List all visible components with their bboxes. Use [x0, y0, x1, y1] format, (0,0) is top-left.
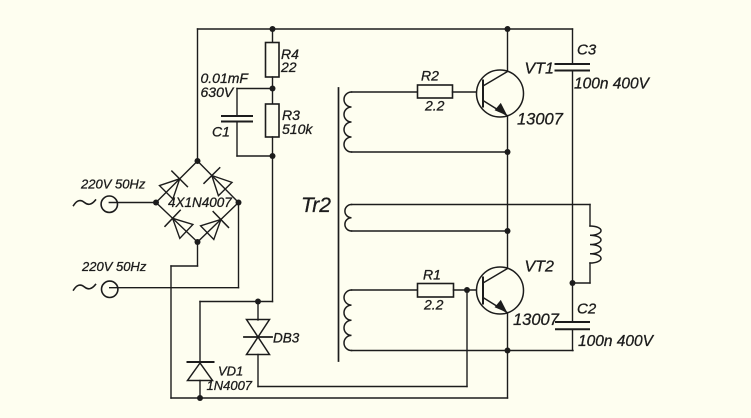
diode D1 upper-left of bridge — [172, 171, 188, 187]
svg-text:R1: R1 — [423, 267, 441, 283]
winding W1 Tr2 top — [344, 92, 352, 152]
ac tilde lower — [74, 285, 96, 291]
bridge rectifier diamond — [156, 161, 198, 203]
wire top rail — [198, 28, 573, 30]
diode D4 lower-right of bridge — [213, 212, 228, 228]
wire C3 bottom lead — [572, 71, 574, 323]
node bridge right vertex — [236, 200, 242, 206]
node C3/C2/choke junction — [570, 280, 576, 286]
svg-text:510k: 510k — [282, 121, 313, 137]
svg-text:Tr2: Tr2 — [301, 194, 331, 217]
wire W2 top lead to choke — [352, 204, 591, 206]
node VT2 emitter / bus junction — [505, 348, 511, 354]
diode D3 lower-left of bridge — [165, 210, 180, 226]
wire bottom bus — [171, 397, 508, 399]
svg-text:VT1: VT1 — [525, 61, 554, 78]
node VT2 base junction — [464, 287, 470, 293]
svg-text:13007: 13007 — [513, 311, 560, 329]
resistor R1 — [418, 284, 454, 298]
svg-text:VT2: VT2 — [525, 259, 554, 276]
node bridge top vertex — [195, 158, 201, 164]
node VD1/bottom-bus junction — [197, 395, 203, 401]
winding W2 Tr2 middle — [345, 205, 352, 232]
wire AC neutral run — [110, 287, 239, 289]
node half-bridge midpoint junction — [505, 228, 511, 234]
diode VD1 — [188, 361, 214, 363]
svg-text:100n 400V: 100n 400V — [574, 76, 651, 93]
wire W1 top lead to R2 — [352, 91, 418, 93]
svg-text:2.2: 2.2 — [424, 98, 445, 114]
wire C3 top lead — [572, 29, 574, 64]
wire R2 to VT1 base — [453, 91, 484, 93]
resistor R4 — [266, 43, 280, 78]
svg-text:13007: 13007 — [517, 111, 564, 129]
wire C1 top lead — [237, 88, 273, 90]
svg-text:VD1: VD1 — [218, 364, 243, 379]
terminal AC live circle — [101, 196, 117, 212]
capacitor C1 — [222, 115, 252, 117]
svg-text:R2: R2 — [421, 68, 439, 84]
wire DB3 upper lead — [257, 302, 259, 321]
wire W1 bottom lead to VT1 emitter — [352, 151, 508, 153]
diac DB3 — [247, 320, 270, 338]
svg-text:220V 50Hz: 220V 50Hz — [80, 177, 146, 192]
wire VT1 collector — [507, 29, 509, 71]
wire W2 bottom lead to midpoint — [352, 230, 508, 232]
node rail/VT1 collector junction — [505, 26, 511, 32]
wire choke top lead — [589, 205, 591, 227]
svg-text:2.2: 2.2 — [423, 297, 444, 313]
winding W3 Tr2 bottom — [344, 290, 352, 351]
wire DB3 lower lead — [257, 355, 259, 387]
wire R4 to R3 — [272, 77, 274, 104]
wire R3 down to DB3 node — [272, 137, 274, 302]
transistor VT2 — [477, 267, 524, 314]
svg-text:4X1N4007: 4X1N4007 — [168, 195, 232, 210]
diode D2 upper-right of bridge — [204, 168, 220, 184]
svg-text:630V: 630V — [201, 84, 235, 100]
wire W3 top lead to R1 — [352, 289, 418, 291]
wire AC live to bridge — [109, 202, 156, 204]
ac tilde upper — [74, 200, 96, 206]
wire DB3 top node — [200, 301, 273, 303]
svg-text:C3: C3 — [577, 42, 597, 59]
node R3/C1 bottom junction — [270, 153, 276, 159]
resistor R2 — [418, 85, 453, 98]
terminal AC neutral circle — [102, 281, 118, 297]
wire rail to R4 — [272, 29, 274, 43]
node R4/C1 junction — [270, 86, 276, 92]
wire choke bottom lead — [589, 263, 591, 283]
node bridge bottom vertex — [195, 239, 201, 245]
wire DB3 to VT2 base riser — [258, 386, 467, 388]
transformer Tr2 core — [338, 88, 340, 361]
transistor VT1 — [477, 70, 524, 117]
wire bridge minus drop — [197, 242, 199, 266]
capacitor C3 — [556, 63, 590, 65]
wire R1 to VT2 base — [454, 289, 484, 291]
svg-text:1N4007: 1N4007 — [207, 378, 253, 393]
wire W3 bottom lead bus — [352, 350, 574, 352]
wire left drop to bridge + — [197, 29, 199, 161]
resistor R3 — [266, 104, 280, 137]
wire C1 bottom lead — [236, 122, 238, 157]
wire C2 bottom lead — [572, 329, 574, 350]
node bridge left vertex — [153, 200, 159, 206]
svg-text:C2: C2 — [577, 301, 597, 318]
svg-text:220V 50Hz: 220V 50Hz — [81, 259, 147, 274]
svg-text:100n 400V: 100n 400V — [578, 333, 655, 350]
wire VT1 emitter to VT2 collector — [507, 116, 509, 268]
wire AC neutral riser to bridge — [238, 203, 240, 288]
svg-text:DB3: DB3 — [273, 331, 300, 346]
node VT1 emitter / W1 junction — [505, 149, 511, 155]
svg-text:C1: C1 — [212, 124, 230, 140]
wire VD1 bottom lead — [199, 381, 201, 399]
node rail/R4 junction — [270, 26, 276, 32]
wire VD1 top lead — [199, 302, 201, 363]
wire VT2 emitter down — [507, 313, 509, 398]
svg-text:22: 22 — [280, 59, 297, 75]
capacitor C2 — [556, 321, 589, 323]
inductor output choke — [590, 226, 601, 263]
node DB3 top junction — [255, 299, 261, 305]
